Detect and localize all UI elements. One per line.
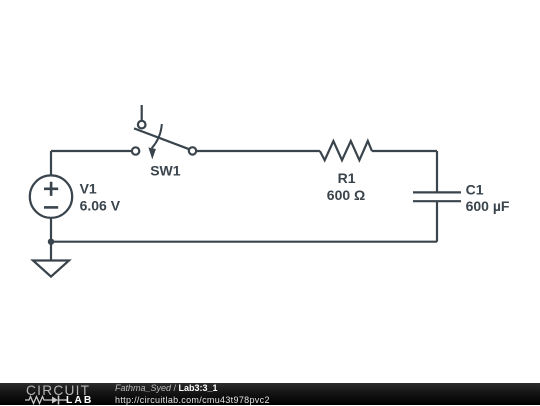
ground symbol — [33, 261, 69, 277]
svg-text:6.06 V: 6.06 V — [80, 198, 121, 214]
switch SW1 top throw circle — [138, 121, 146, 129]
wire V1 bottom to ground — [50, 218, 52, 261]
switch SW1 actuation arc arrow — [152, 124, 162, 148]
svg-text:V1: V1 — [80, 181, 97, 197]
wire V1 top to switch — [50, 151, 52, 176]
svg-text:R1: R1 — [338, 170, 356, 186]
CircuitLab logo wordmark LAB — [66, 395, 93, 406]
resistor R1 — [320, 141, 372, 160]
wire right vertical to capacitor — [436, 151, 438, 192]
svg-text:600 µF: 600 µF — [466, 198, 510, 214]
capacitor C1 top plate — [413, 191, 461, 193]
CircuitLab logo wordmark CIRCUIT — [26, 383, 90, 398]
switch SW1 blade — [134, 128, 191, 149]
V1 minus sign — [44, 206, 58, 209]
footer bar — [0, 383, 540, 405]
CircuitLab logo schematic glyph (resistor + diode) — [25, 394, 71, 406]
wire switch to resistor — [196, 150, 320, 152]
switch SW1 right terminal circle — [189, 147, 196, 154]
wire resistor to top-right corner — [372, 150, 437, 152]
switch SW1 left terminal circle — [132, 147, 139, 154]
V1 plus sign — [44, 182, 58, 196]
svg-text:600 Ω: 600 Ω — [327, 187, 365, 203]
footer author / title line — [115, 383, 218, 393]
footer url line — [115, 395, 270, 405]
switch SW1 arrowhead — [148, 148, 156, 160]
switch SW1 top stub — [141, 105, 143, 121]
voltage source V1 circle — [30, 175, 72, 217]
junction node dot — [48, 239, 54, 245]
svg-text:C1: C1 — [466, 181, 484, 197]
wire bottom horizontal — [51, 241, 437, 243]
capacitor C1 bottom plate — [413, 200, 461, 202]
wire top-left horizontal — [51, 150, 132, 152]
svg-text:SW1: SW1 — [150, 162, 181, 178]
wire capacitor down to bottom-right corner — [436, 201, 438, 242]
